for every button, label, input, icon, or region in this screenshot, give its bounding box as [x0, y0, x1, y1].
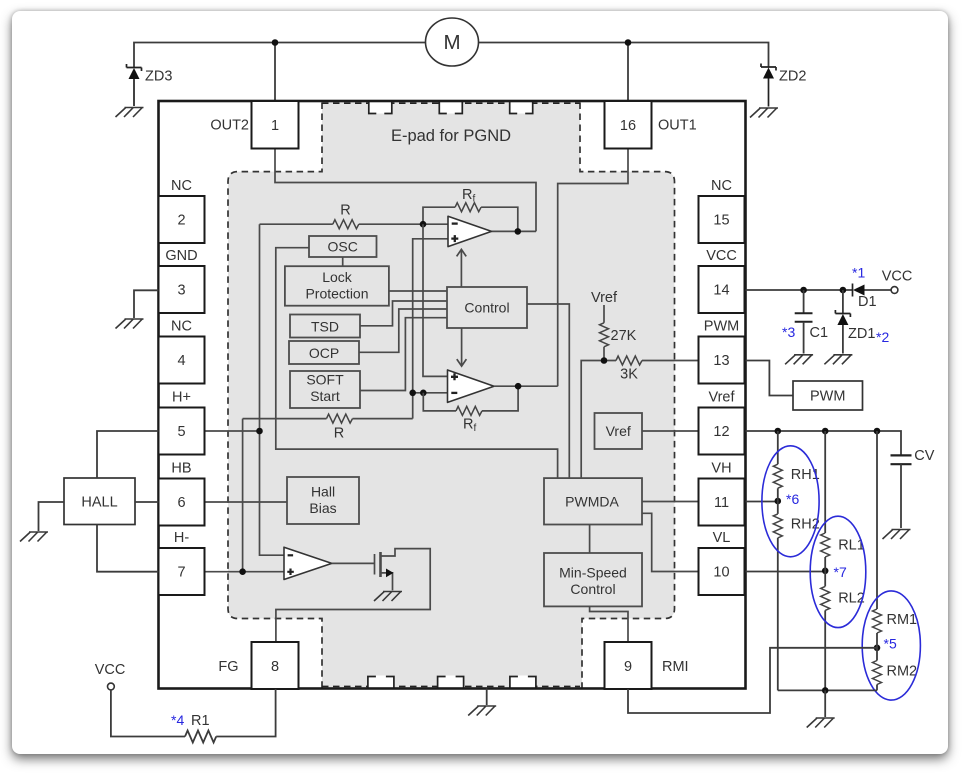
svg-text:Bias: Bias — [309, 500, 336, 516]
wire OUT1 net: pin16 to op-amp U2 output — [558, 149, 628, 387]
comparator U3 — [284, 547, 332, 579]
svg-text:R: R — [340, 203, 350, 219]
node U1 inverting input — [420, 221, 427, 228]
node U1 output — [515, 228, 522, 235]
box TSD — [290, 315, 360, 338]
e-pad tab top 2 — [439, 101, 462, 114]
svg-text:Vref: Vref — [606, 423, 631, 439]
pin 2 — [159, 178, 205, 243]
svg-text:3K: 3K — [620, 367, 638, 383]
wire U1 noninverting input from x412 bus — [413, 239, 448, 419]
wire HALL to ground — [39, 502, 65, 531]
svg-text:*3: *3 — [782, 324, 795, 340]
svg-text:4: 4 — [177, 353, 185, 369]
wire pin12 Vref rail — [746, 431, 902, 455]
resistor 27K — [600, 323, 609, 347]
wire HALL to pin7 — [97, 525, 159, 572]
svg-text:VCC: VCC — [882, 269, 913, 285]
svg-text:OUT2: OUT2 — [210, 118, 249, 134]
IC border — [159, 101, 746, 689]
ground under ZD2 — [750, 108, 778, 118]
svg-text:H-: H- — [174, 530, 189, 546]
resistor 3K — [616, 356, 642, 365]
svg-text:R1: R1 — [191, 713, 210, 729]
svg-text:Control: Control — [570, 581, 615, 597]
capacitor C1 — [782, 290, 828, 354]
wire node to 3K to pin13 — [604, 360, 698, 362]
wire H+ bus — [260, 224, 285, 555]
ground at FET source — [374, 592, 402, 602]
resistor R (top) — [333, 220, 359, 229]
svg-text:E-pad for PGND: E-pad for PGND — [391, 127, 511, 145]
wire U2 feedback via Rf bottom — [423, 386, 518, 411]
wire PWMDA to pin10 — [642, 513, 698, 571]
svg-text:PWM: PWM — [704, 319, 739, 335]
ground under C1 — [785, 355, 813, 365]
node rail RM — [874, 428, 881, 435]
node *5 — [874, 645, 881, 652]
pin 15 — [699, 178, 745, 243]
wire rail to ground — [824, 690, 826, 717]
svg-text:D1: D1 — [858, 294, 877, 310]
box Hall Bias — [287, 477, 359, 524]
resistor R (bottom) — [327, 414, 353, 423]
box PWMDA — [544, 478, 642, 524]
svg-text:*4: *4 — [171, 712, 184, 728]
pin 16 — [605, 101, 697, 149]
box HALL sensor — [64, 478, 135, 525]
svg-text:VL: VL — [713, 530, 731, 546]
svg-text:RM1: RM1 — [887, 612, 918, 628]
wire comparator output to FET gate — [332, 562, 375, 564]
svg-text:7: 7 — [177, 565, 185, 581]
wire VCC to R1 — [111, 690, 185, 737]
svg-text:14: 14 — [713, 283, 729, 299]
wire U2 noninverting input from x423 bus — [423, 224, 448, 376]
wire Vref to 27K — [603, 305, 605, 323]
node 27K 3K junction — [601, 357, 608, 364]
wire U2 inverting input — [413, 392, 448, 394]
svg-text:Min-Speed: Min-Speed — [559, 565, 627, 581]
ground at pin3 — [116, 319, 144, 329]
box Control — [447, 287, 527, 328]
op-amp U1 — [448, 216, 492, 246]
wire pin6 to Hall Bias — [205, 501, 288, 503]
svg-text:ZD3: ZD3 — [145, 69, 172, 85]
box Vref internal — [595, 413, 643, 449]
node rail RH — [775, 428, 782, 435]
svg-text:R: R — [334, 426, 344, 442]
pin 11 — [699, 461, 745, 526]
svg-text:NC: NC — [171, 319, 192, 335]
svg-text:5: 5 — [177, 424, 185, 440]
wire U1 output — [492, 230, 537, 232]
box Lock Protection — [285, 266, 389, 306]
arrowhead to U1 — [457, 249, 467, 256]
wire epad bottom to ground — [486, 689, 488, 706]
wire SOFT Start to Control — [360, 318, 447, 391]
node junction above pin1 — [272, 39, 279, 46]
zener ZD2 — [761, 64, 806, 107]
svg-text:12: 12 — [713, 424, 729, 440]
resistor RL1 — [821, 431, 865, 557]
resistor RM2 — [873, 633, 918, 690]
svg-text:NC: NC — [711, 178, 732, 194]
svg-text:13: 13 — [713, 353, 729, 369]
svg-text:OSC: OSC — [328, 239, 358, 255]
pin 8 — [218, 642, 298, 689]
node rail RL — [822, 428, 829, 435]
pin 3 — [159, 248, 205, 313]
svg-text:*7: *7 — [834, 564, 847, 580]
wire pin5 into IC — [205, 430, 260, 432]
pin 9 — [605, 642, 689, 689]
wire OCP to Control — [359, 309, 447, 352]
svg-text:OCP: OCP — [309, 345, 339, 361]
svg-text:15: 15 — [713, 213, 729, 229]
capacitor CV — [891, 448, 935, 528]
node *6 — [775, 498, 782, 505]
wire pin16 stub to top rail — [627, 43, 629, 102]
wire D1 to VCC terminal — [865, 289, 892, 291]
pin 14 — [699, 248, 745, 313]
wire HALL to pin6 — [135, 501, 159, 503]
wire Control to PWMDA — [527, 304, 569, 478]
svg-text:RMI: RMI — [662, 659, 689, 675]
node C1 junction — [800, 287, 807, 294]
svg-text:SOFT: SOFT — [306, 372, 344, 388]
e-pad tab bottom 2 — [438, 676, 464, 689]
node *7 — [822, 568, 829, 575]
svg-text:Start: Start — [310, 388, 340, 404]
diode D1 — [852, 265, 877, 311]
E-pad dashed edge along IC bottom — [322, 685, 580, 687]
svg-text:Hall: Hall — [311, 484, 335, 500]
svg-text:ZD2: ZD2 — [779, 69, 806, 85]
wire H- bus — [242, 419, 244, 572]
svg-text:VCC: VCC — [706, 248, 737, 264]
wire U2 output — [494, 385, 558, 387]
resistor RL2 — [821, 557, 865, 690]
resistor RH2 — [773, 488, 820, 690]
pin 7 — [159, 530, 205, 595]
wire node to PWMDA — [581, 361, 604, 479]
e-pad tab top 3 — [510, 101, 533, 114]
resistor Rf top — [455, 203, 481, 212]
svg-text:*2: *2 — [876, 329, 889, 345]
svg-text:VH: VH — [711, 461, 731, 477]
zener ZD1 — [835, 290, 889, 354]
ground under ZD3 — [116, 108, 144, 118]
svg-text:VCC: VCC — [95, 662, 126, 678]
ground under ZD1 — [824, 355, 852, 365]
svg-text:1: 1 — [271, 118, 279, 134]
wire HALL to pin5 — [97, 431, 159, 478]
wire pin13 to PWM box — [746, 361, 794, 396]
node ZD1 junction — [840, 287, 847, 294]
terminal VCC right — [882, 269, 913, 294]
node pin5 H+ bus — [256, 428, 263, 435]
pin 5 — [159, 390, 205, 455]
svg-text:OUT1: OUT1 — [658, 118, 697, 134]
box SOFT Start — [290, 371, 360, 408]
wire PWMDA to Min-Speed Control — [589, 525, 591, 554]
svg-text:HALL: HALL — [81, 495, 117, 511]
wire R1 to pin8 — [216, 689, 275, 737]
E-pad dashed outline right — [580, 103, 675, 688]
resistor R1 — [185, 731, 216, 743]
E-pad dashed edge along IC top — [322, 102, 580, 104]
wire Control to U2 arrow — [461, 328, 463, 365]
zener ZD3 — [127, 64, 173, 106]
e-pad tab top 1 — [369, 101, 392, 114]
box OSC — [309, 236, 377, 257]
node junction above pin16 — [625, 39, 632, 46]
node U2 inverting input a — [409, 390, 416, 397]
node pin7 H- bus — [239, 568, 246, 575]
svg-text:TSD: TSD — [311, 319, 339, 335]
arrowhead to U2 — [457, 359, 467, 366]
wire top rail from ZD3 to motor and to ZD2 — [134, 43, 769, 69]
svg-text:Vref: Vref — [591, 290, 618, 306]
svg-text:H+: H+ — [172, 390, 191, 406]
terminal VCC bottom left — [95, 662, 126, 690]
svg-text:9: 9 — [624, 659, 632, 675]
E-pad dashed outline left — [228, 103, 322, 688]
wire Lock Protection to Control — [389, 290, 447, 292]
wire OSC to Lock Protection — [342, 257, 344, 266]
svg-text:2: 2 — [177, 213, 185, 229]
wire Min-Speed Control to pin9 — [590, 606, 628, 642]
wire OSC to PWMDA clock bus — [276, 248, 558, 478]
wire Vref box to pin12 — [642, 430, 698, 432]
svg-text:GND: GND — [165, 248, 197, 264]
IC body fill — [159, 101, 746, 689]
svg-text:3: 3 — [177, 283, 185, 299]
ellipse *5 group — [862, 591, 920, 700]
wire R bottom: from H- bus to U2 inverting bus — [243, 418, 413, 420]
e-pad tab bottom 1 — [368, 676, 394, 689]
svg-text:NC: NC — [171, 178, 192, 194]
resistor Rf bottom — [456, 406, 482, 415]
svg-text:*5: *5 — [884, 636, 897, 652]
op-amp U2 — [448, 370, 495, 402]
svg-text:8: 8 — [271, 659, 279, 675]
svg-text:M: M — [443, 31, 460, 54]
wire pin10 to RL node — [746, 571, 826, 573]
pin 13 — [699, 319, 745, 384]
pin 6 — [159, 461, 205, 526]
E-pad gray region — [228, 102, 675, 688]
motor M — [426, 18, 479, 66]
svg-text:Control: Control — [464, 300, 509, 316]
resistor RH1 — [773, 431, 820, 488]
box Min-Speed Control — [544, 553, 642, 606]
ellipse *7 group — [810, 516, 866, 627]
pin 4 — [159, 319, 205, 384]
svg-text:PWM: PWM — [810, 389, 845, 405]
pin 10 — [699, 530, 745, 595]
wire U1 feedback via Rf top — [423, 207, 518, 231]
wire pin7 to comparator — [205, 571, 285, 573]
node U2 inverting input b — [420, 390, 427, 397]
svg-text:CV: CV — [914, 448, 934, 464]
svg-text:*6: *6 — [786, 491, 799, 507]
wire OUT2 net: pin1 to op-amp U1 output — [275, 149, 536, 232]
svg-text:Protection: Protection — [305, 286, 368, 302]
wire pin3 to ground — [134, 290, 159, 318]
ellipse *6 group — [762, 446, 819, 557]
svg-text:*1: *1 — [852, 265, 865, 281]
wire R top: from H+ bus to U1 inverting input — [260, 223, 449, 225]
wire 27K to node — [603, 347, 605, 361]
transistor Q1 FET — [276, 549, 430, 642]
wire PWMDA to pin11 — [642, 501, 698, 503]
wire TSD to Control — [360, 301, 447, 326]
svg-text:ZD1: ZD1 — [848, 326, 875, 342]
wire bottom rail RH2 RL2 RM2 — [778, 689, 877, 691]
node bottom rail — [822, 687, 829, 694]
svg-text:11: 11 — [714, 495, 729, 511]
node U2 output — [515, 383, 522, 390]
svg-text:27K: 27K — [611, 328, 637, 344]
pin 1 — [210, 101, 298, 149]
ground at divider rail — [807, 718, 835, 728]
svg-text:HB: HB — [171, 461, 191, 477]
box OCP — [289, 341, 359, 364]
svg-text:10: 10 — [713, 565, 729, 581]
svg-text:FG: FG — [218, 659, 238, 675]
wire control to U1 arrow — [460, 251, 462, 288]
wire pin9 to *5 node — [628, 648, 877, 713]
svg-text:6: 6 — [177, 495, 185, 511]
pin 12 — [699, 390, 745, 455]
svg-text:Lock: Lock — [322, 269, 353, 285]
svg-text:C1: C1 — [810, 325, 829, 341]
svg-text:16: 16 — [620, 118, 636, 134]
ground at HALL — [20, 532, 48, 542]
box PWM external — [793, 381, 863, 410]
e-pad tab bottom 3 — [510, 676, 536, 689]
ground under CV — [883, 530, 911, 540]
svg-text:PWMDA: PWMDA — [565, 494, 619, 510]
wire pin11 to RH node — [746, 501, 778, 503]
wire pin1 stub to top rail — [274, 43, 276, 102]
svg-text:Vref: Vref — [708, 390, 735, 406]
resistor RM1 — [873, 431, 918, 633]
svg-text:RM2: RM2 — [887, 664, 918, 680]
wire pin14 VCC rail to D1 — [746, 289, 853, 291]
ground at epad bottom — [468, 706, 496, 716]
